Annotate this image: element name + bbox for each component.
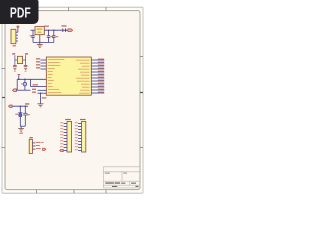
connector J2	[29, 139, 35, 153]
title block text	[105, 182, 138, 187]
net labels J2 pins	[36, 142, 44, 149]
net label above J1	[17, 26, 20, 28]
net labels J4 pins	[75, 122, 78, 150]
sheet	[2, 7, 143, 193]
U1 left pins with net labels	[36, 58, 47, 69]
capacitor C4	[13, 65, 17, 66]
LED D1	[21, 79, 27, 90]
capacitor C1	[30, 30, 35, 42]
port J3 bottom	[60, 149, 64, 151]
ground C5	[24, 68, 27, 71]
port PWR_KEY	[13, 89, 18, 92]
wire bead to port	[66, 29, 68, 31]
wire VIN to regulator	[30, 29, 35, 31]
capacitor C7	[23, 106, 30, 126]
title block labels	[105, 173, 127, 174]
net label above J3	[65, 119, 71, 120]
wire crystal left	[15, 55, 18, 65]
port +3V3	[68, 29, 73, 32]
U1 right pins with net labels	[91, 59, 104, 93]
wire regulator bottom rail	[33, 35, 54, 43]
net label VBUS	[25, 103, 29, 104]
capacitor C5	[24, 65, 28, 66]
ground VBUS filter	[18, 129, 24, 134]
value label U2	[44, 26, 49, 27]
capacitor C3	[52, 29, 58, 42]
net label XO	[25, 53, 28, 54]
port J2 pin3	[43, 148, 46, 150]
ground regulator	[37, 42, 43, 47]
voltage regulator U2	[35, 27, 44, 35]
wire bottom join	[20, 126, 25, 128]
wire VBUS rail	[12, 105, 28, 107]
connector J4	[78, 122, 86, 153]
title block	[103, 167, 140, 188]
wire LED circuit top stub	[18, 74, 21, 79]
port VBUS	[9, 105, 13, 107]
wire crystal right	[23, 55, 26, 65]
ground U1	[38, 104, 44, 107]
wire LED to U1	[31, 84, 47, 86]
value label FB1	[62, 25, 67, 26]
capacitor C6	[15, 106, 22, 126]
net label above J2	[29, 137, 32, 138]
U1 left pin labels	[48, 59, 65, 93]
capacitor C2	[47, 29, 53, 42]
ferrite bead FB1	[62, 29, 66, 32]
connector J1	[11, 28, 18, 44]
wire regulator output	[44, 29, 62, 31]
wire LED circuit loop	[17, 79, 46, 91]
crystal X1	[17, 56, 22, 63]
net label below J1	[13, 45, 16, 46]
net label above J4	[80, 119, 86, 120]
connector J3	[64, 122, 72, 153]
net labels J3 pins	[60, 122, 63, 147]
net label XI	[12, 53, 15, 54]
U1 right pin labels	[76, 60, 90, 94]
svg-text:PDF: PDF	[10, 5, 31, 21]
wire U1 ground drop	[40, 92, 47, 103]
IC U1	[46, 57, 91, 95]
U1 lower-left pins	[32, 89, 46, 94]
ground C4	[13, 68, 16, 71]
PDF badge	[0, 0, 39, 24]
